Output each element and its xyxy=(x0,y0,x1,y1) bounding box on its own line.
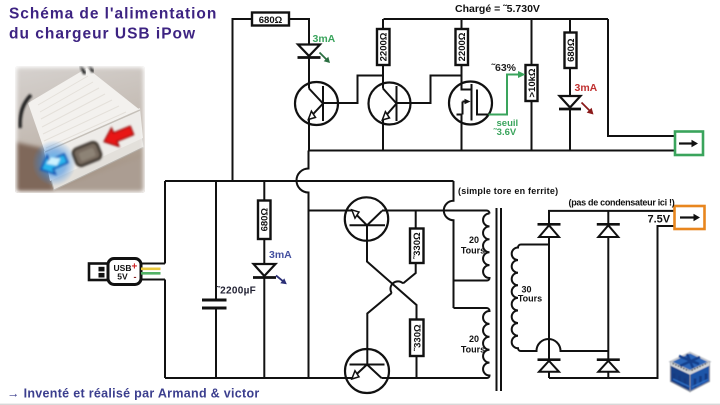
svg-text:>10kΩ: >10kΩ xyxy=(527,68,538,97)
svg-text:Tours: Tours xyxy=(461,246,485,256)
svg-text:7.5V: 7.5V xyxy=(648,214,671,226)
svg-text:˜2200µF: ˜2200µF xyxy=(216,286,257,297)
svg-text:Chargé = ˜5.730V: Chargé = ˜5.730V xyxy=(455,3,540,15)
svg-text:(simple tore en ferrite): (simple tore en ferrite) xyxy=(458,186,558,196)
svg-text:+: + xyxy=(132,261,138,272)
svg-text:20: 20 xyxy=(469,334,479,344)
svg-text:Tours: Tours xyxy=(518,294,542,304)
svg-text:2200Ω: 2200Ω xyxy=(457,32,468,61)
svg-text:˜330Ω: ˜330Ω xyxy=(412,232,423,260)
svg-text:˜330Ω: ˜330Ω xyxy=(413,324,424,352)
svg-text:Schéma de l'alimentation: Schéma de l'alimentation xyxy=(9,6,217,23)
svg-text:680Ω: 680Ω xyxy=(260,208,271,232)
svg-text:20: 20 xyxy=(469,235,479,245)
svg-text:(pas de condensateur ici !): (pas de condensateur ici !) xyxy=(569,197,675,207)
svg-text:-: - xyxy=(134,272,137,282)
svg-text:680Ω: 680Ω xyxy=(566,38,577,62)
svg-text:3mA: 3mA xyxy=(313,33,336,45)
svg-text:5V: 5V xyxy=(117,271,128,281)
svg-text:3mA: 3mA xyxy=(269,249,292,261)
svg-text:3mA: 3mA xyxy=(575,82,598,94)
svg-text:˜63%: ˜63% xyxy=(491,62,517,74)
svg-text:˜3.6V: ˜3.6V xyxy=(493,127,517,138)
svg-text:du chargeur USB iPow: du chargeur USB iPow xyxy=(9,26,196,43)
svg-text:680Ω: 680Ω xyxy=(259,15,283,26)
svg-text:→ Inventé et réalisé par Arman: → Inventé et réalisé par Armand & victor xyxy=(7,387,260,401)
svg-text:2200Ω: 2200Ω xyxy=(379,32,390,61)
svg-text:Tours: Tours xyxy=(461,345,485,355)
